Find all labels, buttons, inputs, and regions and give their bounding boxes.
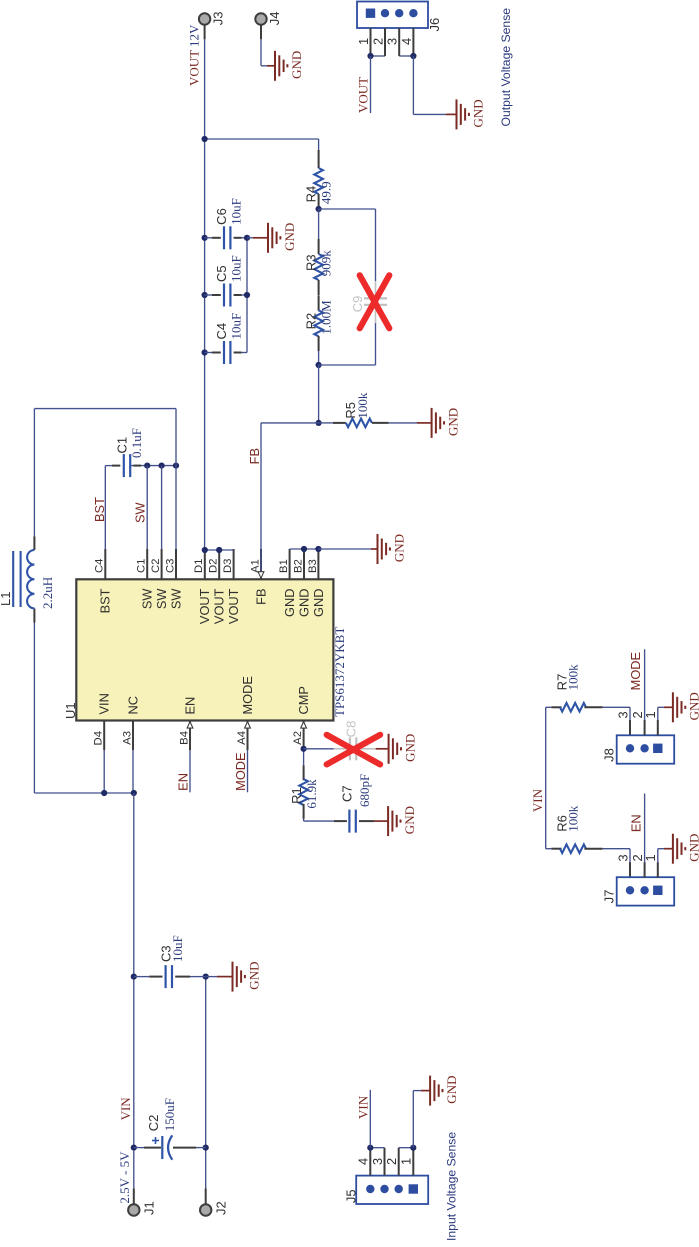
wire CMP pin <box>303 750 305 765</box>
resistor R6 <box>546 848 552 850</box>
capacitor C3 <box>131 974 137 980</box>
svg-text:GND: GND <box>246 962 261 990</box>
svg-text:J7: J7 <box>602 890 617 904</box>
svg-text:U1: U1 <box>63 702 78 719</box>
svg-text:0.1uF: 0.1uF <box>129 428 144 458</box>
svg-text:B2: B2 <box>292 559 304 573</box>
svg-text:C1: C1 <box>136 559 148 573</box>
svg-text:GND: GND <box>282 589 297 617</box>
resistor R4 <box>318 139 320 150</box>
connector J6 <box>357 2 428 29</box>
pin stubs left side <box>103 721 105 751</box>
ground GND below C7 <box>387 806 389 836</box>
resistor R1 <box>303 765 305 780</box>
wire L1 to VIN corner <box>33 623 35 794</box>
wire R7 to J8 pin 3 <box>629 707 631 720</box>
svg-text:VIN: VIN <box>530 788 545 812</box>
svg-text:680pF: 680pF <box>357 774 372 807</box>
wire VOUT to R4 branch <box>205 138 319 140</box>
net label MODE at IC <box>247 750 249 792</box>
svg-text:3: 3 <box>385 38 400 45</box>
svg-text:SW: SW <box>168 588 183 610</box>
svg-text:1: 1 <box>399 1158 414 1165</box>
svg-text:VOUT: VOUT <box>226 588 241 624</box>
resistor R3 <box>314 254 323 280</box>
wire J4 to GND <box>260 25 262 39</box>
svg-text:SW: SW <box>140 588 155 610</box>
svg-text:10uF: 10uF <box>228 255 243 282</box>
wire J6 to GND <box>412 56 414 114</box>
svg-text:1: 1 <box>643 711 658 718</box>
wire to GND at C6 <box>247 237 253 239</box>
svg-text:49.9: 49.9 <box>319 181 334 204</box>
capacitor C5 <box>202 292 208 298</box>
connector J2 <box>205 1189 207 1205</box>
svg-text:4: 4 <box>399 38 414 45</box>
wire J5 pins 1-2 tie <box>399 1147 414 1149</box>
capacitor C2 polarized <box>131 1145 137 1151</box>
capacitor C8 DNP <box>304 748 334 750</box>
svg-text:J2: J2 <box>214 1201 229 1215</box>
op-amp U1 <box>76 579 333 720</box>
svg-text:C5: C5 <box>214 265 229 282</box>
svg-text:GND: GND <box>296 589 311 617</box>
svg-text:GND: GND <box>391 534 406 562</box>
svg-text:VIN: VIN <box>118 1097 133 1121</box>
resistor R2 <box>314 310 323 336</box>
wire J8 pin 2 MODE <box>644 720 646 735</box>
svg-text:NC: NC <box>125 696 140 714</box>
inductor L1 <box>33 537 35 551</box>
svg-text:TPS61372YKBT: TPS61372YKBT <box>332 627 347 717</box>
node VIN rail <box>133 793 135 1189</box>
svg-text:C9: C9 <box>350 296 365 313</box>
svg-text:C4: C4 <box>94 559 106 573</box>
svg-text:150uF: 150uF <box>162 1098 177 1131</box>
node GND rail bottom <box>205 977 207 1189</box>
capacitor C9 <box>364 304 387 306</box>
wire SW tie line <box>131 465 177 467</box>
connector J1 <box>133 1189 135 1205</box>
svg-text:3: 3 <box>370 1158 385 1165</box>
wire between R4 and R3 <box>318 209 320 239</box>
svg-text:C1: C1 <box>114 437 129 454</box>
connector J4 <box>255 13 266 24</box>
wire to GND symbol <box>318 548 371 550</box>
svg-text:2.5V - 5V: 2.5V - 5V <box>117 1151 132 1204</box>
svg-text:MODE: MODE <box>240 676 255 714</box>
svg-text:100k: 100k <box>565 664 580 691</box>
svg-text:C7: C7 <box>339 785 354 802</box>
svg-text:J3: J3 <box>211 11 226 25</box>
svg-text:VOUT: VOUT <box>356 77 371 113</box>
svg-text:2: 2 <box>384 1158 399 1165</box>
svg-text:J4: J4 <box>267 11 282 25</box>
svg-text:B3: B3 <box>307 559 319 573</box>
svg-text:CMP: CMP <box>296 686 311 714</box>
wire FB node to pin A1 <box>261 422 319 424</box>
wire cap common line <box>246 238 248 353</box>
svg-text:EN: EN <box>176 773 191 791</box>
svg-text:VOUT: VOUT <box>187 50 202 86</box>
wire J5 VIN <box>369 1090 371 1148</box>
svg-text:VOUT: VOUT <box>212 588 227 624</box>
ground GND below C8 <box>388 734 390 764</box>
ground GND at J4 <box>274 51 276 81</box>
wire R1 to C7 <box>303 819 305 821</box>
svg-text:A2: A2 <box>292 731 304 745</box>
wire between R3 and R2 <box>318 294 320 297</box>
svg-text:FB: FB <box>247 448 262 464</box>
svg-text:GND: GND <box>402 806 417 834</box>
wire chain to FB node <box>318 365 320 423</box>
ground GND at J5 <box>429 1076 431 1106</box>
svg-text:GND: GND <box>402 734 417 762</box>
svg-text:B4: B4 <box>178 731 190 745</box>
resistor R7 <box>546 706 552 708</box>
svg-text:B1: B1 <box>278 559 290 573</box>
wire C9 branch right <box>319 364 376 366</box>
svg-text:A1: A1 <box>249 559 261 573</box>
svg-text:A3: A3 <box>121 731 133 745</box>
svg-text:GND: GND <box>282 223 297 251</box>
svg-text:VIN: VIN <box>97 693 112 714</box>
svg-text:BST: BST <box>92 497 107 522</box>
svg-text:C8: C8 <box>343 721 358 738</box>
capacitor C6 <box>202 235 208 241</box>
capacitor C7 <box>334 820 347 822</box>
svg-text:12V: 12V <box>187 24 202 47</box>
wire J6 pins 1-2 tie <box>371 55 386 57</box>
svg-text:R4: R4 <box>303 186 318 203</box>
wire R6 to J7 pin 3 <box>629 849 631 863</box>
svg-text:SW: SW <box>132 501 147 523</box>
capacitor C1 <box>112 465 120 467</box>
connector J5 <box>356 1176 428 1204</box>
wire J6 pins 3-4 tie <box>399 55 413 57</box>
DNP cross over C8 <box>327 735 380 765</box>
svg-text:L1: L1 <box>0 592 13 606</box>
svg-text:1.00M: 1.00M <box>319 300 334 335</box>
svg-text:4: 4 <box>356 1158 371 1165</box>
net label EN at IC <box>189 750 191 792</box>
svg-text:MODE: MODE <box>233 752 248 790</box>
svg-text:SW: SW <box>154 588 169 610</box>
svg-text:100k: 100k <box>565 805 580 832</box>
svg-text:BST: BST <box>98 588 113 613</box>
svg-text:1: 1 <box>643 854 658 861</box>
wire J7 pin 2 EN <box>644 862 646 877</box>
svg-text:D2: D2 <box>208 559 220 573</box>
connector J7 <box>617 877 675 905</box>
wire VIN segment for R6 R7 <box>545 707 547 848</box>
svg-text:R1: R1 <box>289 787 304 804</box>
svg-text:VIN: VIN <box>356 1095 371 1119</box>
ground GND at IC <box>377 534 379 564</box>
svg-text:C2: C2 <box>146 1115 161 1132</box>
wire C9 branch left <box>319 208 376 210</box>
svg-text:GND: GND <box>687 834 699 862</box>
svg-text:GND: GND <box>687 692 699 720</box>
wire J5 to GND <box>412 1091 414 1148</box>
svg-text:GND: GND <box>470 99 485 127</box>
connector J8 <box>617 735 675 763</box>
ground GND below R5 <box>431 408 433 438</box>
svg-text:C4: C4 <box>214 323 229 340</box>
ground GND at J7 <box>672 834 674 864</box>
svg-text:J5: J5 <box>343 1189 358 1203</box>
svg-text:R2: R2 <box>303 313 318 330</box>
node VOUT rail <box>204 39 206 550</box>
wire D-pin tie <box>205 549 234 551</box>
svg-text:909k: 909k <box>319 250 334 277</box>
wire J8 pin 1 to GND <box>657 720 659 735</box>
svg-text:61.9k: 61.9k <box>304 779 319 809</box>
pin arrow A2 <box>301 722 307 729</box>
svg-text:C3: C3 <box>164 559 176 573</box>
svg-text:3: 3 <box>615 711 630 718</box>
svg-text:GND: GND <box>289 51 304 79</box>
svg-text:3: 3 <box>615 854 630 861</box>
svg-text:J8: J8 <box>602 748 617 762</box>
svg-text:Output Voltage Sense: Output Voltage Sense <box>499 8 513 127</box>
wire J5 pins 3-4 tie <box>370 1147 384 1149</box>
wire SW to L1 <box>175 409 177 466</box>
svg-text:10uF: 10uF <box>228 198 243 225</box>
pin stubs right side <box>104 549 106 579</box>
svg-text:100k: 100k <box>355 392 370 419</box>
svg-text:MODE: MODE <box>628 652 643 690</box>
svg-text:VOUT: VOUT <box>197 588 212 624</box>
wire J6 VOUT <box>370 56 372 113</box>
svg-text:10uF: 10uF <box>170 935 185 962</box>
ground GND at C3 <box>232 962 234 992</box>
svg-text:EN: EN <box>629 814 644 832</box>
svg-text:GND: GND <box>311 589 326 617</box>
svg-text:J6: J6 <box>427 18 442 32</box>
wire VIN pin <box>103 750 105 793</box>
wire J7 pin 1 to GND <box>657 862 659 877</box>
connector J3 <box>204 25 206 39</box>
resistor R5 <box>319 422 333 424</box>
svg-text:FB: FB <box>253 589 268 605</box>
capacitor C4 <box>202 349 208 355</box>
svg-text:Input Voltage Sense: Input Voltage Sense <box>445 1132 459 1241</box>
svg-text:10uF: 10uF <box>228 313 243 340</box>
svg-text:1: 1 <box>356 38 371 45</box>
svg-text:EN: EN <box>182 697 197 715</box>
wire SW pins to tie <box>146 466 148 549</box>
svg-text:D1: D1 <box>193 559 205 573</box>
svg-text:GND: GND <box>444 1076 459 1104</box>
svg-text:R3: R3 <box>303 254 318 271</box>
wire NC pin <box>132 750 134 793</box>
svg-text:D3: D3 <box>222 559 234 573</box>
svg-text:2.2uH: 2.2uH <box>40 577 55 609</box>
svg-text:A4: A4 <box>236 731 248 745</box>
ground GND at J6 <box>456 99 458 129</box>
wire BST <box>104 466 106 549</box>
svg-text:GND: GND <box>445 408 460 436</box>
ground GND at VOUT caps <box>267 223 269 253</box>
svg-text:J1: J1 <box>141 1201 156 1215</box>
svg-text:C2: C2 <box>150 559 162 573</box>
svg-text:D4: D4 <box>93 731 105 745</box>
wire to GND at C3 <box>206 976 217 978</box>
ground GND at J8 <box>672 692 674 722</box>
pin arrow A1 <box>258 572 264 579</box>
svg-text:2: 2 <box>370 38 385 45</box>
wire GND pins tie <box>290 548 319 550</box>
DNP cross over C9 <box>360 275 390 328</box>
svg-text:C6: C6 <box>214 208 229 225</box>
